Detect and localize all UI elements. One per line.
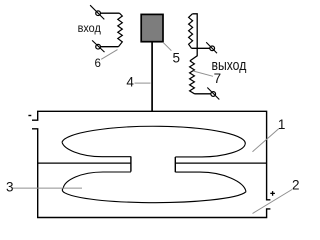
resistor R7 lower section — [190, 61, 195, 94]
svg-text:1: 1 — [278, 117, 286, 132]
leader line 5 — [163, 42, 172, 51]
partition plate left — [38, 162, 131, 164]
svg-text:3: 3 — [6, 179, 14, 194]
leader line 4 — [135, 82, 151, 84]
svg-text:вход: вход — [78, 21, 101, 35]
terminal input bottom — [92, 40, 104, 52]
transducer block 5 — [141, 14, 163, 41]
terminal output upper — [206, 42, 217, 53]
leader line 1 — [253, 129, 279, 152]
wire output bottom — [195, 93, 211, 95]
membrane lens 1 (upper) — [62, 126, 245, 157]
leader line 6 — [101, 50, 117, 60]
resistor R6 (input coil) — [118, 13, 123, 47]
wire input top — [101, 12, 120, 14]
leader line 3 — [13, 187, 82, 189]
neck wall right — [174, 157, 176, 172]
resistor R7 upper section — [189, 14, 193, 49]
svg-text:5: 5 — [173, 51, 181, 66]
wire output tap upper — [192, 47, 210, 49]
plus polarity mark — [270, 191, 275, 196]
wire 4 (block 5 to tank) — [151, 42, 153, 111]
svg-text:7: 7 — [214, 71, 222, 86]
minus polarity mark — [28, 115, 31, 117]
neck wall left — [130, 156, 132, 171]
wire input bottom — [101, 46, 119, 48]
leader line 2 — [253, 190, 293, 214]
leader line 7 — [193, 71, 213, 76]
svg-text:6: 6 — [95, 58, 101, 70]
partition plate right — [175, 162, 266, 164]
membrane lens 3 (lower) — [62, 172, 246, 203]
terminal output bottom — [207, 88, 219, 100]
terminal input top — [90, 5, 104, 19]
tank vessel outline — [32, 111, 270, 217]
svg-text:2: 2 — [292, 178, 300, 193]
svg-text:4: 4 — [126, 74, 134, 89]
wire R7 top connector — [190, 14, 197, 61]
